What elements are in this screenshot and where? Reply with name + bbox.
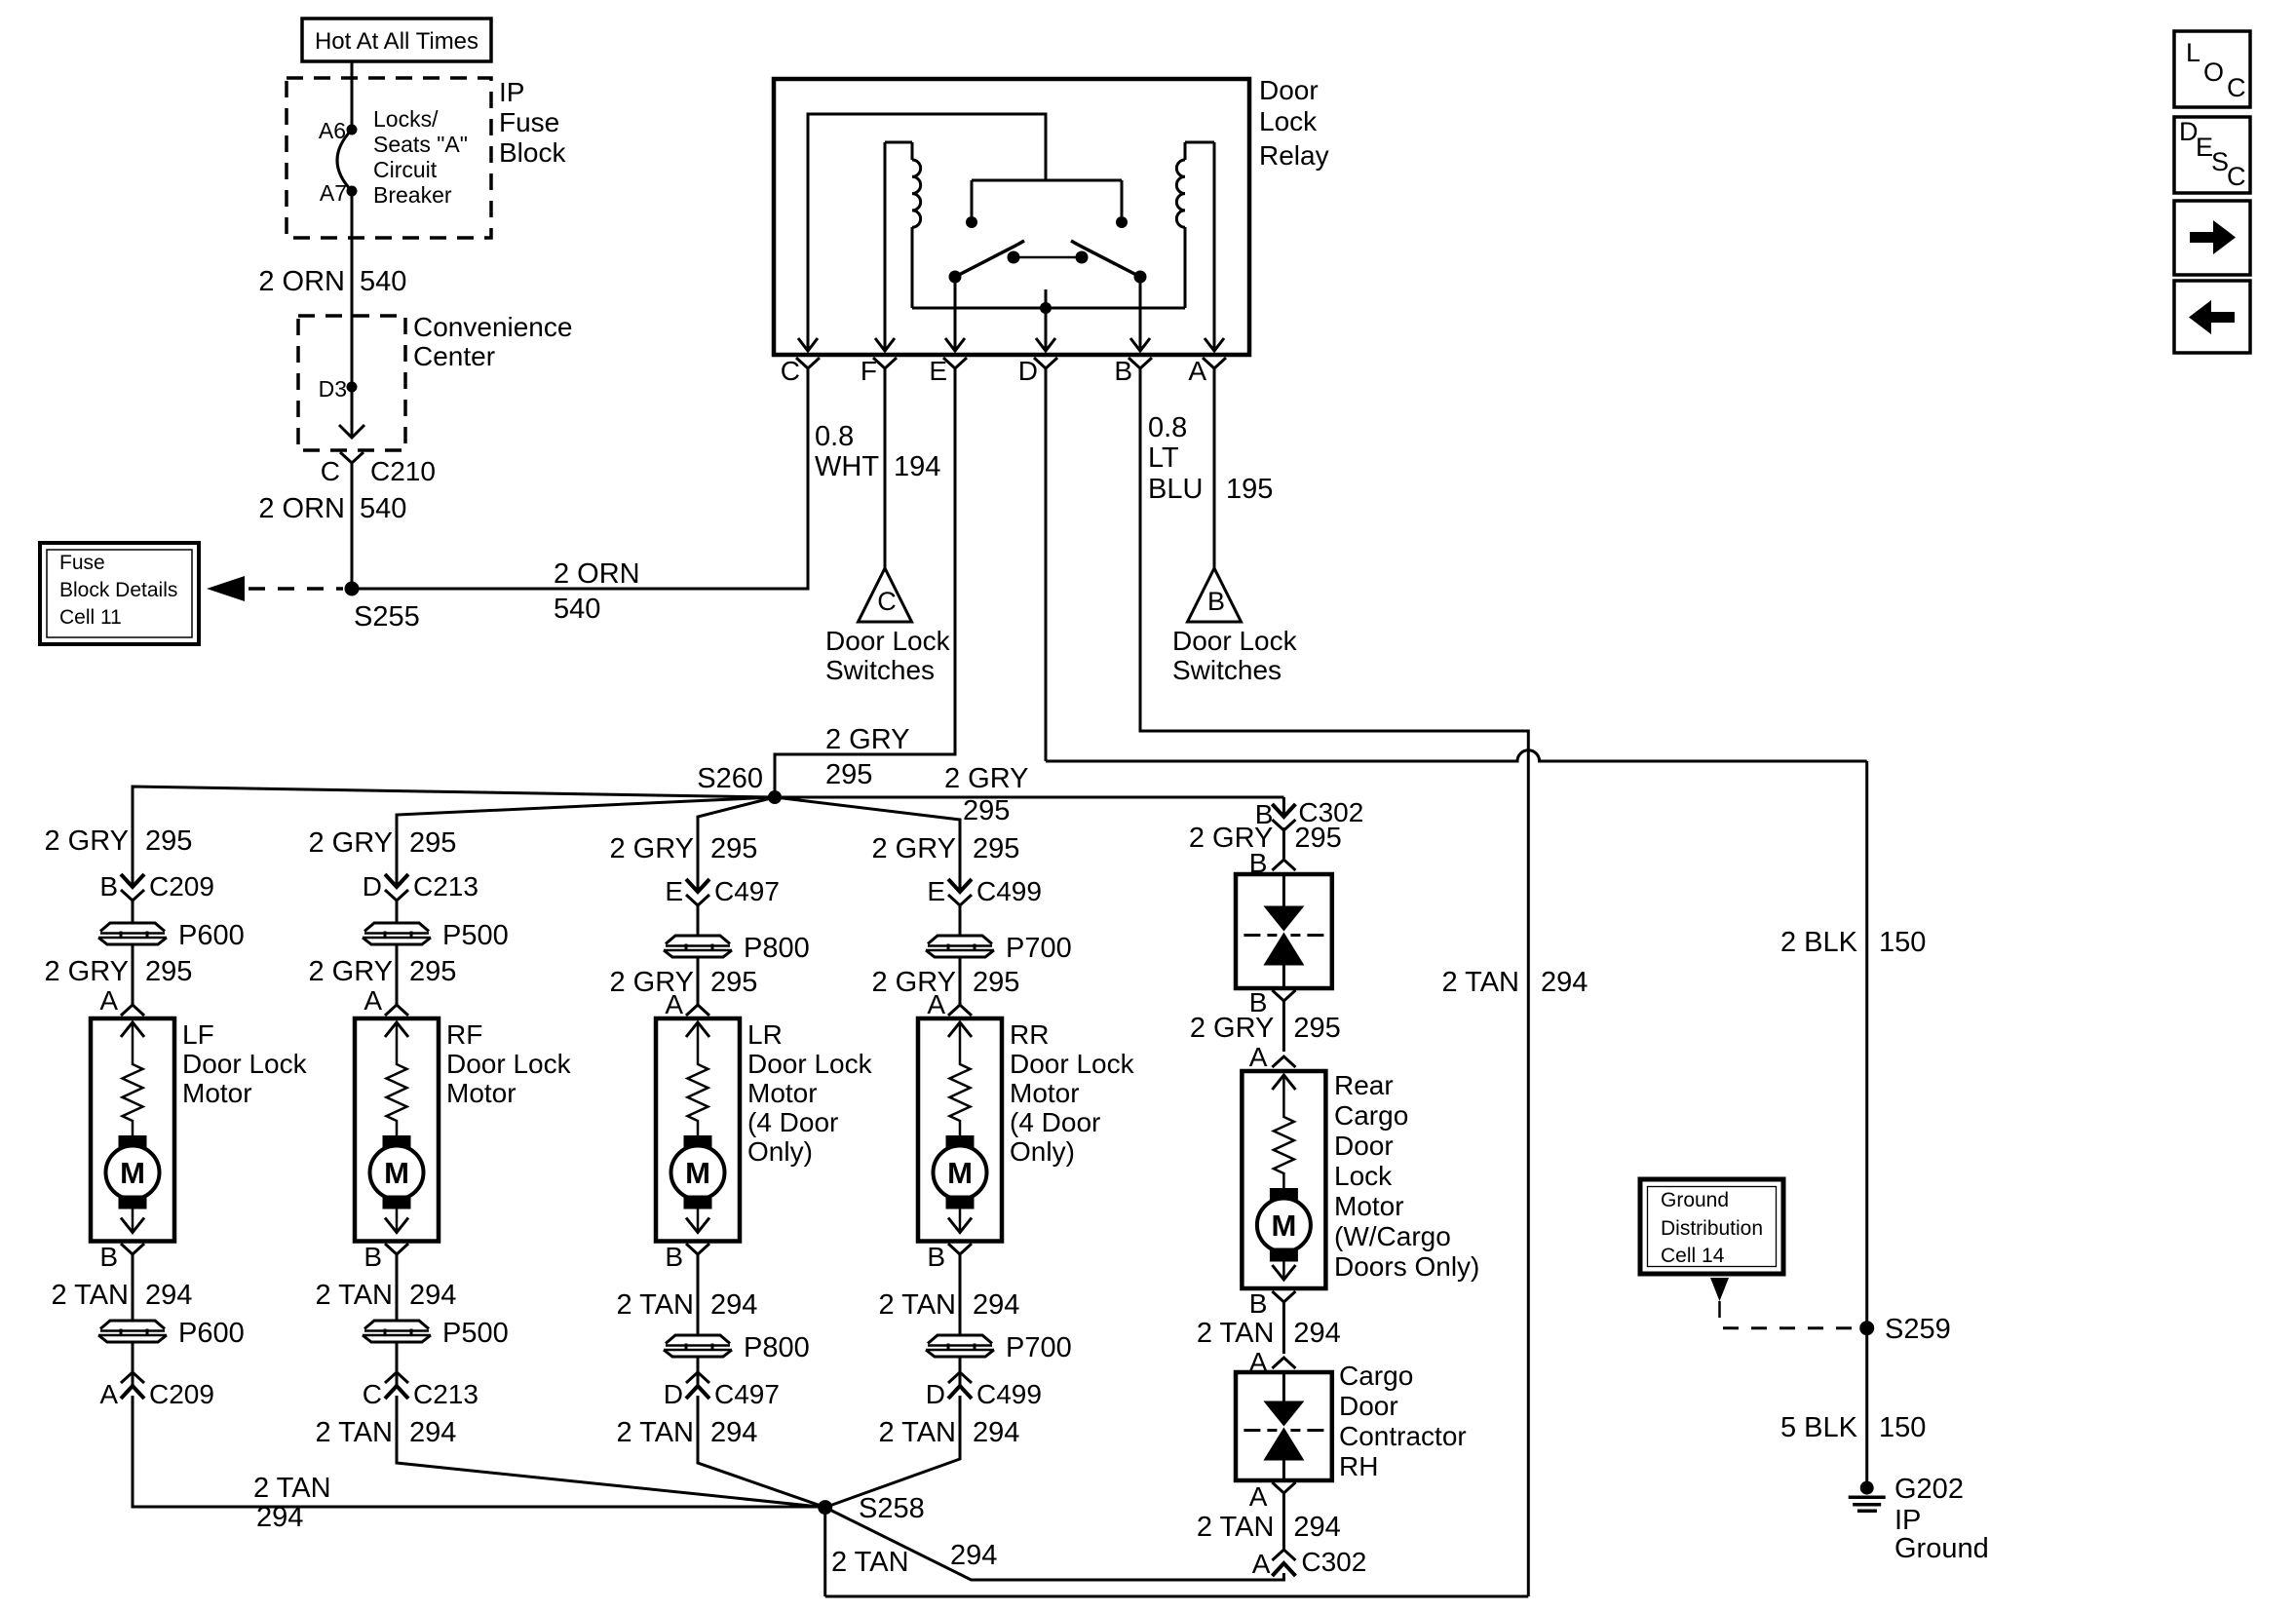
- IP Fuse Block label: [499, 77, 566, 168]
- terminal A6: [319, 118, 358, 143]
- svg-text:2 TAN: 2 TAN: [878, 1417, 956, 1448]
- wire label 0.8 WHT 194: [815, 421, 940, 482]
- svg-text:Contractor: Contractor: [1339, 1421, 1467, 1451]
- svg-text:540: 540: [360, 493, 406, 524]
- pass-through connector P600 (upper, LF): [97, 920, 245, 951]
- svg-text:C: C: [363, 1379, 382, 1409]
- wire A7 to connector C210 (2 ORN 540): [339, 191, 364, 438]
- svg-text:295: 295: [973, 967, 1019, 998]
- svg-text:Lock: Lock: [1259, 106, 1318, 136]
- LR motor internals: [671, 1022, 725, 1233]
- wire label 2 TAN 294 (LR): [616, 1289, 757, 1321]
- svg-text:A: A: [665, 989, 683, 1019]
- svg-text:2 GRY: 2 GRY: [1190, 1013, 1275, 1044]
- svg-text:C210: C210: [370, 456, 436, 486]
- svg-text:2 GRY: 2 GRY: [44, 825, 129, 857]
- svg-text:Cargo: Cargo: [1339, 1361, 1413, 1391]
- pass-through connector P700 (lower, RR): [925, 1332, 1072, 1363]
- svg-text:Motor: Motor: [1010, 1078, 1080, 1108]
- wire relay pin D to ground branch (hops over B wire): [1046, 368, 1867, 1328]
- svg-text:A7: A7: [320, 180, 347, 206]
- svg-text:2 BLK: 2 BLK: [1780, 927, 1858, 958]
- svg-text:E: E: [929, 356, 947, 386]
- wire label 2 GRY 295 (to C302): [944, 763, 1029, 826]
- wire LF motor to splice S258 (2 TAN 294): [133, 1396, 825, 1507]
- svg-text:195: 195: [1226, 474, 1273, 505]
- LR Door Lock Motor label: [747, 1019, 873, 1167]
- svg-text:P800: P800: [744, 1332, 810, 1363]
- svg-text:295: 295: [710, 967, 757, 998]
- wire cargo motor to contactor RH (2 TAN 294): [1282, 1302, 1285, 1354]
- svg-text:2 ORN: 2 ORN: [554, 558, 640, 590]
- wire C302 to cargo door contactor LH: [1282, 827, 1285, 859]
- svg-text:C: C: [781, 356, 800, 386]
- svg-text:Block Details: Block Details: [59, 579, 177, 601]
- RF Door Lock Motor box: [355, 1018, 439, 1242]
- svg-text:Door Lock: Door Lock: [825, 626, 951, 656]
- pass-through connector P600 (lower, LF): [97, 1318, 245, 1349]
- wire S260 to LF branch: [133, 787, 775, 887]
- wire label 2 TAN 294 (bottom left): [253, 1473, 331, 1533]
- connector C497 pin D (LR): [664, 1372, 780, 1409]
- svg-text:294: 294: [973, 1417, 1019, 1448]
- relay pin A: [1188, 356, 1226, 386]
- svg-text:C209: C209: [149, 1379, 214, 1409]
- relay pin E: [929, 356, 967, 386]
- wire RF motor to splice S258: [397, 1396, 825, 1508]
- svg-text:295: 295: [145, 956, 192, 987]
- terminal A7: [320, 180, 358, 206]
- svg-text:295: 295: [973, 833, 1019, 864]
- Fuse Block Details Cell 11 reference box: [40, 543, 199, 644]
- svg-text:D: D: [664, 1379, 683, 1409]
- svg-text:IP: IP: [499, 77, 524, 107]
- svg-text:Center: Center: [413, 341, 495, 371]
- svg-text:Motor: Motor: [446, 1078, 517, 1108]
- Rear Cargo Door Lock Motor label: [1334, 1070, 1479, 1282]
- relay movable contact bar: [1008, 251, 1089, 264]
- svg-text:S258: S258: [859, 1493, 925, 1524]
- svg-text:Breaker: Breaker: [373, 182, 452, 208]
- relay stationary contact left: [966, 216, 977, 228]
- relay internal pin arrowhead x=1073: [1036, 338, 1055, 351]
- Cargo Door Contractor RH box: [1236, 1372, 1332, 1480]
- svg-text:294: 294: [1293, 1512, 1340, 1543]
- svg-text:2 TAN: 2 TAN: [315, 1417, 393, 1448]
- svg-text:A: A: [1252, 1549, 1271, 1579]
- svg-text:294: 294: [409, 1417, 456, 1448]
- connector C213 pin C (RF): [363, 1372, 478, 1409]
- ground G202 label: [1894, 1474, 1989, 1564]
- svg-text:Motor: Motor: [182, 1078, 252, 1108]
- svg-text:294: 294: [1541, 967, 1588, 998]
- RR motor internals: [934, 1022, 987, 1233]
- wire label 2 TAN (S258 branch): [831, 1547, 909, 1578]
- connector C499 pin D (RR): [926, 1372, 1042, 1409]
- wire C210 to splice S255: [351, 463, 354, 589]
- svg-text:(4 Door: (4 Door: [1010, 1107, 1100, 1137]
- svg-text:LR: LR: [747, 1019, 783, 1050]
- wire label 2 GRY 295 (RF upper): [308, 827, 456, 859]
- wire label 2 ORN 540 (upper): [258, 266, 406, 297]
- svg-text:295: 295: [409, 827, 456, 859]
- relay coil right (pin A): [1176, 142, 1214, 351]
- wire S258 to connector C302 pin A (2 TAN 294): [825, 1508, 1284, 1580]
- connector C209 pin A (LF): [99, 1372, 214, 1409]
- svg-text:C499: C499: [976, 876, 1042, 906]
- RF motor internals: [370, 1022, 424, 1233]
- svg-text:C: C: [877, 587, 897, 616]
- svg-text:B: B: [99, 1242, 118, 1272]
- svg-text:C213: C213: [413, 871, 478, 902]
- wire label 2 GRY 295 (LR lower): [609, 967, 757, 998]
- svg-text:Fuse: Fuse: [499, 107, 559, 137]
- wire label 0.8 LT BLU 195: [1148, 412, 1273, 505]
- svg-text:Motor: Motor: [1334, 1191, 1404, 1221]
- svg-text:Door Lock: Door Lock: [1010, 1049, 1135, 1079]
- wire C209 to motor (LF): [132, 901, 134, 1005]
- wire C499 to motor (RR): [959, 905, 962, 1005]
- svg-text:Motor: Motor: [747, 1078, 818, 1108]
- svg-text:0.8: 0.8: [1148, 412, 1187, 443]
- svg-text:Only): Only): [1010, 1136, 1075, 1167]
- connector C499 pin E (RR): [927, 876, 1042, 906]
- svg-text:2 TAN: 2 TAN: [616, 1289, 694, 1321]
- svg-text:(4 Door: (4 Door: [747, 1107, 838, 1137]
- svg-text:294: 294: [145, 1280, 192, 1311]
- cargo door contactor RH pin A fork (bottom): [1249, 1481, 1296, 1512]
- wire relay pin A to Door Lock Switches triangle B (0.8 LT BLU 195): [1213, 368, 1216, 568]
- svg-text:C302: C302: [1301, 1547, 1366, 1577]
- off-page connector triangle B: [1188, 568, 1242, 622]
- svg-text:(W/Cargo: (W/Cargo: [1334, 1221, 1451, 1251]
- relay switch blade right: [1071, 241, 1147, 284]
- wire label 2 GRY 295 (RR lower): [871, 967, 1019, 998]
- svg-text:O: O: [2203, 58, 2224, 87]
- svg-text:2 ORN: 2 ORN: [258, 266, 345, 297]
- svg-text:2 GRY: 2 GRY: [871, 833, 956, 864]
- wire label 2 ORN 540 (horizontal run): [554, 558, 640, 625]
- relay stationary contact right: [1116, 216, 1128, 228]
- svg-text:2 GRY: 2 GRY: [944, 763, 1029, 794]
- wire S260 to RF branch: [397, 797, 775, 887]
- cargo door contactor RH pin A fork (top): [1249, 1347, 1296, 1377]
- svg-text:Ground: Ground: [1894, 1533, 1989, 1564]
- dashed wire to splice S259: [1723, 1326, 1856, 1329]
- svg-text:E: E: [665, 876, 683, 906]
- svg-text:Door Lock: Door Lock: [446, 1049, 572, 1079]
- svg-text:294: 294: [973, 1289, 1019, 1321]
- svg-text:Door: Door: [1259, 75, 1319, 105]
- relay internal pin arrowhead x=908: [875, 338, 895, 351]
- RR Door Lock Motor box: [918, 1018, 1002, 1242]
- svg-text:B: B: [665, 1242, 683, 1272]
- motor pin A fork (RF): [364, 985, 408, 1016]
- svg-text:RF: RF: [446, 1019, 482, 1050]
- wire label 2 TAN 294 (LR lower): [616, 1417, 757, 1448]
- IP Fuse Block dashed box: [287, 78, 491, 238]
- svg-text:F: F: [861, 356, 877, 386]
- svg-text:Locks/: Locks/: [373, 106, 439, 132]
- wire label 2 TAN 294 (RR lower): [878, 1417, 1019, 1448]
- svg-text:5 BLK: 5 BLK: [1780, 1412, 1858, 1443]
- relay pin C: [781, 356, 820, 386]
- svg-text:294: 294: [256, 1502, 303, 1533]
- pass-through connector P500 (lower, RF): [362, 1318, 509, 1349]
- wire label 2 GRY 295 (LF lower): [44, 956, 192, 987]
- svg-text:B: B: [1207, 587, 1225, 616]
- svg-text:S260: S260: [697, 763, 763, 794]
- connector C213 pin D (RF): [363, 871, 478, 902]
- off-page connector triangle C: [859, 568, 912, 622]
- dashed reference arrow to Fuse Block Details: [207, 576, 343, 601]
- wire label 2 TAN 294 (LF): [51, 1280, 192, 1311]
- svg-text:Convenience: Convenience: [413, 312, 572, 342]
- svg-text:295: 295: [963, 795, 1010, 826]
- cargo door contactor internals (upper): [1244, 874, 1323, 988]
- LF Door Lock Motor box: [91, 1018, 174, 1242]
- legend box DESC: [2174, 117, 2250, 193]
- svg-text:295: 295: [145, 825, 192, 857]
- svg-text:Relay: Relay: [1259, 140, 1329, 171]
- wire relay pin F to Door Lock Switches triangle C (0.8 WHT 194): [884, 368, 887, 568]
- legend box arrow right: [2174, 201, 2250, 275]
- svg-text:Switches: Switches: [1172, 655, 1282, 685]
- svg-text:C209: C209: [149, 871, 214, 902]
- relay coil left (pin F): [885, 142, 921, 351]
- rear cargo motor pin B fork: [1249, 1288, 1296, 1319]
- pass-through connector P700 (upper, RR): [925, 933, 1072, 964]
- splice S258: [818, 1493, 925, 1524]
- relay internal pin arrowhead x=1170: [1130, 338, 1150, 351]
- connector C210 pin C: [321, 452, 436, 486]
- wire label 2 TAN 294 (RF lower): [315, 1417, 456, 1448]
- svg-text:C: C: [2227, 73, 2246, 102]
- svg-text:2 GRY: 2 GRY: [825, 724, 910, 755]
- svg-text:C213: C213: [413, 1379, 478, 1409]
- svg-text:295: 295: [409, 956, 456, 987]
- svg-text:2 TAN: 2 TAN: [831, 1547, 909, 1578]
- wire label 2 ORN 540 (lower): [258, 493, 406, 524]
- svg-text:Cargo: Cargo: [1334, 1100, 1408, 1131]
- svg-text:RR: RR: [1010, 1019, 1049, 1050]
- svg-text:2 TAN: 2 TAN: [51, 1280, 129, 1311]
- wire label 294 (S258 branch): [950, 1540, 997, 1571]
- relay internal pin arrowhead x=980: [945, 338, 965, 351]
- wire label 2 GRY 295 (cargo): [1190, 1013, 1341, 1044]
- pass-through connector P500 (upper, RF): [362, 920, 509, 951]
- motor pin B fork (LF): [99, 1242, 144, 1272]
- connector C209 pin B (LF): [99, 871, 214, 902]
- svg-text:Door: Door: [1334, 1131, 1394, 1161]
- svg-text:295: 295: [1294, 823, 1341, 854]
- relay internal bottom rail: [912, 307, 1185, 310]
- svg-text:2 TAN: 2 TAN: [1441, 967, 1519, 998]
- svg-text:C497: C497: [714, 876, 780, 906]
- svg-text:295: 295: [825, 759, 872, 790]
- svg-text:B: B: [1114, 356, 1132, 386]
- wire contactor RH to C302 pin A (2 TAN 294): [1282, 1493, 1285, 1551]
- svg-text:M: M: [384, 1156, 409, 1190]
- ground G202: [1849, 1481, 1886, 1512]
- wire S259 to ground G202 (5 BLK 150): [1865, 1328, 1868, 1488]
- svg-text:RH: RH: [1339, 1451, 1378, 1481]
- pass-through connector P800 (lower, LR): [663, 1332, 810, 1363]
- svg-text:2 TAN: 2 TAN: [878, 1289, 956, 1321]
- Ground Distribution Cell 14 reference box: [1640, 1179, 1783, 1274]
- Convenience Center dashed box: [298, 316, 405, 450]
- circuit breaker label: [373, 106, 468, 208]
- svg-text:P800: P800: [744, 933, 810, 964]
- svg-text:Ground: Ground: [1661, 1189, 1729, 1211]
- wire S255 to relay pin C (2 ORN 540): [352, 367, 808, 589]
- wire LR motor to splice S258: [698, 1396, 825, 1508]
- svg-text:2 TAN: 2 TAN: [1197, 1318, 1275, 1349]
- motor pin A fork (LR): [665, 989, 709, 1019]
- svg-text:294: 294: [950, 1540, 997, 1571]
- wire C497 to motor (LR): [697, 905, 700, 1005]
- svg-text:A: A: [364, 985, 382, 1016]
- svg-text:E: E: [927, 876, 945, 906]
- svg-text:Lock: Lock: [1334, 1161, 1393, 1191]
- motor pin B fork (RR): [927, 1242, 972, 1272]
- wire label 2 TAN 294 (cargo): [1197, 1318, 1341, 1349]
- cargo door contactor pin B fork (bottom): [1249, 987, 1296, 1017]
- svg-text:Door: Door: [1339, 1391, 1398, 1421]
- svg-text:D: D: [1018, 356, 1038, 386]
- svg-text:2 GRY: 2 GRY: [609, 833, 694, 864]
- svg-text:2 ORN: 2 ORN: [258, 493, 345, 524]
- relay pin B: [1114, 356, 1152, 386]
- svg-text:2 TAN: 2 TAN: [315, 1280, 393, 1311]
- svg-text:LF: LF: [182, 1019, 214, 1050]
- wire relay pin E to splice S260 (2 GRY 295): [775, 368, 955, 797]
- Door Lock Relay label: [1259, 75, 1329, 171]
- svg-text:2 GRY: 2 GRY: [308, 827, 393, 859]
- svg-text:C: C: [2227, 162, 2246, 191]
- svg-text:G202: G202: [1894, 1474, 1964, 1505]
- wire S260 to RR branch: [775, 797, 960, 892]
- cargo door contactor box (upper): [1236, 874, 1332, 988]
- splice S255: [345, 582, 420, 633]
- svg-text:Seats "A": Seats "A": [373, 132, 468, 157]
- relay internal pin arrowhead x=829: [798, 338, 818, 351]
- svg-text:LT: LT: [1148, 442, 1179, 474]
- svg-text:B: B: [927, 1242, 945, 1272]
- motor pin A fork (RR): [927, 989, 972, 1019]
- svg-text:2 TAN: 2 TAN: [253, 1473, 331, 1504]
- svg-text:Door Lock: Door Lock: [747, 1049, 873, 1079]
- svg-text:540: 540: [360, 266, 406, 297]
- svg-text:150: 150: [1879, 1412, 1926, 1443]
- wire label 2 GRY 295 (at E corner): [825, 724, 910, 790]
- svg-text:294: 294: [1293, 1318, 1340, 1349]
- wire label 2 TAN 294 (RR): [878, 1289, 1019, 1321]
- svg-text:2 GRY: 2 GRY: [308, 956, 393, 987]
- svg-text:294: 294: [409, 1280, 456, 1311]
- legend box LOC: [2174, 31, 2250, 107]
- terminal D3: [319, 376, 358, 402]
- Convenience Center label: [413, 312, 572, 371]
- Door Lock Switches label (left): [825, 626, 951, 685]
- connector C302 pin A (bottom): [1252, 1547, 1367, 1579]
- legend box arrow left: [2174, 281, 2250, 353]
- motor pin A fork (LF): [99, 985, 144, 1016]
- wire RR motor to splice S258: [825, 1396, 960, 1508]
- Cargo Door Contractor RH label: [1339, 1361, 1467, 1481]
- relay pin B internal wire: [1139, 277, 1142, 351]
- svg-text:P500: P500: [442, 920, 509, 951]
- svg-text:WHT: WHT: [815, 451, 879, 482]
- svg-text:Cell 11: Cell 11: [59, 606, 122, 629]
- svg-text:A: A: [1249, 1042, 1268, 1072]
- wire label 5 BLK 150: [1780, 1412, 1926, 1443]
- svg-text:M: M: [685, 1156, 710, 1190]
- Rear Cargo Door Lock Motor box: [1242, 1071, 1325, 1288]
- svg-text:P700: P700: [1006, 933, 1072, 964]
- connector C497 pin E (LR): [665, 876, 780, 906]
- wire S260 to connector C302 (2 GRY 295): [775, 797, 1283, 817]
- wire motor B to C209 (LF): [132, 1254, 134, 1386]
- wire C213 to motor (RF): [396, 901, 399, 1005]
- svg-text:294: 294: [710, 1417, 757, 1448]
- relay pin F: [861, 356, 897, 386]
- svg-text:S259: S259: [1885, 1314, 1951, 1345]
- svg-text:C499: C499: [976, 1379, 1042, 1409]
- svg-text:Block: Block: [499, 137, 566, 168]
- svg-text:P700: P700: [1006, 1332, 1072, 1363]
- svg-text:194: 194: [894, 451, 940, 482]
- wire label 2 BLK 150: [1780, 927, 1926, 958]
- svg-text:Circuit: Circuit: [373, 157, 438, 182]
- svg-text:A6: A6: [319, 118, 346, 143]
- svg-text:M: M: [120, 1156, 145, 1190]
- svg-text:Door Lock: Door Lock: [182, 1049, 308, 1079]
- svg-text:A: A: [99, 985, 118, 1016]
- LF motor internals: [106, 1022, 160, 1233]
- motor pin B fork (LR): [665, 1242, 709, 1272]
- svg-text:Distribution: Distribution: [1661, 1217, 1763, 1240]
- svg-text:C: C: [321, 456, 340, 486]
- svg-text:0.8: 0.8: [815, 421, 854, 452]
- svg-text:Hot At All Times: Hot At All Times: [315, 28, 478, 55]
- wire motor B to C497 (LR): [697, 1254, 700, 1386]
- svg-text:L: L: [2186, 38, 2200, 67]
- svg-text:2 TAN: 2 TAN: [616, 1417, 694, 1448]
- svg-text:Rear: Rear: [1334, 1070, 1394, 1100]
- svg-text:294: 294: [710, 1289, 757, 1321]
- wire label 2 GRY 295 (RF lower): [308, 956, 456, 987]
- ground distribution reference arrow: [1710, 1278, 1729, 1318]
- splice S260: [697, 763, 782, 804]
- svg-text:295: 295: [710, 833, 757, 864]
- wire motor B to C213 (RF): [396, 1254, 399, 1386]
- relay switch blade left: [949, 241, 1025, 284]
- svg-text:D: D: [926, 1379, 945, 1409]
- svg-text:D3: D3: [319, 376, 347, 402]
- svg-text:2 GRY: 2 GRY: [44, 956, 129, 987]
- svg-text:Door Lock: Door Lock: [1172, 626, 1298, 656]
- svg-text:B: B: [364, 1242, 382, 1272]
- RR Door Lock Motor label: [1010, 1019, 1135, 1167]
- wire S258 to bottom bus: [825, 1508, 1529, 1596]
- wire from Hot At All Times into fuse block: [351, 61, 354, 130]
- cargo door contactor pin B fork (top): [1249, 848, 1296, 878]
- svg-text:A: A: [99, 1379, 118, 1409]
- svg-text:Doors Only): Doors Only): [1334, 1251, 1479, 1282]
- Door Lock Switches label (right): [1172, 626, 1298, 685]
- relay pin D: [1018, 356, 1057, 386]
